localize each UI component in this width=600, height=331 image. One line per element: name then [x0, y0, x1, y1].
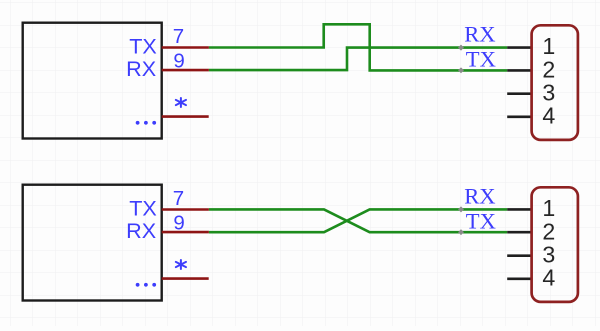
pin 7 (TX) stub, bottom-left symbol	[162, 208, 209, 211]
pin 7 (TX) stub, top-left symbol	[162, 46, 209, 49]
pin name *, top-left symbol	[176, 98, 186, 107]
svg-text:1: 1	[542, 195, 555, 221]
svg-text:4: 4	[542, 264, 555, 290]
connector J1 body (top right, rounded)	[532, 25, 578, 140]
svg-text:TX: TX	[466, 46, 496, 71]
label anchor marker (bottom TX)	[458, 229, 464, 235]
svg-text:7: 7	[173, 187, 184, 210]
connector J1 pin 1 stub	[507, 46, 531, 49]
label anchor marker (bottom RX)	[458, 206, 464, 212]
svg-text:RX: RX	[126, 56, 156, 81]
connector J2 pin 1 stub	[507, 208, 531, 211]
pin * stub, bottom-left symbol	[162, 277, 209, 280]
svg-text:9: 9	[173, 49, 184, 72]
pin name ... (ellipsis), bottom-left symbol	[136, 283, 156, 287]
pin name *, bottom-left symbol	[176, 260, 186, 269]
connector J2 body (bottom right, rounded)	[532, 187, 578, 302]
connector J1 pin 2 stub	[507, 69, 531, 72]
label anchor marker (top TX)	[458, 67, 464, 73]
svg-text:RX: RX	[464, 22, 495, 47]
wire RX (top diagram, crossover)	[209, 48, 507, 71]
pin name ... (ellipsis), top-left symbol	[136, 121, 156, 125]
svg-text:1: 1	[542, 33, 555, 59]
pin 9 (RX) stub, bottom-left symbol	[162, 231, 209, 234]
connector J2 pin 3 stub	[507, 254, 531, 257]
symbol U1 body (left box, top)	[23, 23, 162, 139]
svg-text:TX: TX	[129, 195, 157, 220]
pin 9 (RX) stub, top-left symbol	[162, 69, 209, 72]
wire TX (top diagram, crossover up-over)	[209, 24, 507, 70]
svg-text:4: 4	[542, 102, 555, 128]
label anchor marker (top RX)	[458, 45, 464, 51]
svg-text:TX: TX	[466, 208, 496, 233]
svg-text:9: 9	[173, 211, 184, 234]
connector J1 pin 3 stub	[507, 92, 531, 95]
wire TX (bottom diagram, X crossover)	[209, 209, 507, 232]
connector J2 pin 2 stub	[507, 231, 531, 234]
wire RX (bottom diagram, X crossover)	[209, 209, 507, 232]
svg-text:TX: TX	[129, 33, 157, 58]
svg-text:7: 7	[173, 25, 184, 48]
pin * stub, top-left symbol	[162, 115, 209, 118]
svg-text:RX: RX	[126, 218, 156, 243]
connector J1 pin 4 stub	[507, 116, 531, 119]
svg-text:RX: RX	[464, 184, 495, 209]
symbol U2 body (left box, bottom)	[23, 185, 162, 301]
connector J2 pin 4 stub	[507, 277, 531, 280]
